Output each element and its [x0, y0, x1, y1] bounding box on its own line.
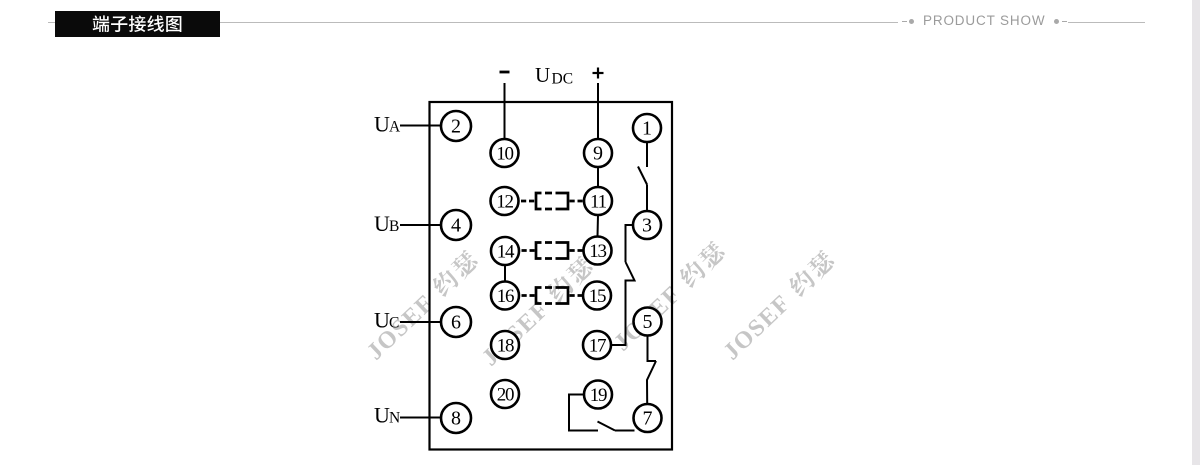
wire terminal 14 to terminal 16 [504, 265, 506, 282]
svg-text:U: U [374, 308, 390, 333]
wire UB to terminal 4 [400, 224, 441, 226]
svg-text:1: 1 [642, 118, 652, 140]
wire terminal 11 to terminal 13 [597, 215, 600, 237]
wire UN to terminal 8 [400, 417, 441, 419]
wire terminal 9 to terminal 11 [597, 167, 599, 187]
terminal 19 [584, 381, 612, 409]
label UN [374, 403, 400, 428]
terminal 11 [584, 187, 612, 215]
label minus [500, 71, 510, 74]
title 端子接线图 glyphs [93, 15, 110, 32]
label plus [593, 68, 604, 79]
header rule right segment [1068, 22, 1145, 23]
svg-text:U: U [374, 112, 390, 137]
header rule left nub [48, 22, 55, 23]
terminal 16 [491, 282, 519, 310]
svg-text:U: U [535, 63, 550, 87]
svg-text:DC: DC [552, 71, 574, 88]
contact K1 terminals 1-3 [638, 142, 647, 211]
wire plus to terminal 9 [597, 83, 599, 139]
product show right dot [1054, 19, 1059, 24]
product show text [923, 14, 1045, 28]
terminal 18 [491, 331, 519, 359]
svg-text:19: 19 [590, 385, 607, 406]
terminal 3 [633, 211, 661, 239]
svg-text:10: 10 [496, 144, 513, 165]
contact K4 terminals 19-7 [569, 395, 635, 431]
terminal 8 [441, 403, 471, 433]
label UB [374, 211, 399, 236]
svg-text:JOSEF: JOSEF [719, 290, 797, 365]
watermark JOSEF 3 [609, 239, 730, 356]
contact K3 terminals 5-7 [647, 336, 656, 405]
wire UC to terminal 6 [400, 321, 441, 323]
svg-text:2: 2 [451, 116, 461, 138]
terminal 15 [583, 282, 611, 310]
svg-text:6: 6 [451, 312, 461, 334]
terminal 13 [584, 237, 612, 265]
svg-text:16: 16 [497, 286, 514, 307]
terminal 4 [441, 210, 471, 240]
svg-text:12: 12 [496, 192, 513, 213]
svg-text:3: 3 [642, 215, 652, 237]
relay outline box [430, 102, 673, 450]
terminal 12 [491, 187, 519, 215]
svg-text:8: 8 [451, 408, 461, 430]
right edge gray strip [1192, 0, 1200, 465]
svg-text:N: N [389, 410, 400, 427]
svg-text:C: C [389, 315, 399, 332]
terminal 5 [634, 308, 662, 336]
svg-text:9: 9 [593, 143, 603, 165]
label UC [374, 308, 399, 333]
svg-text:7: 7 [643, 408, 653, 430]
svg-text:14: 14 [497, 242, 515, 263]
label UDC [535, 63, 573, 88]
resistor R1 terminals 12-11 (dashed) [521, 193, 583, 209]
terminal 1 [633, 114, 661, 142]
terminal 20 [491, 380, 519, 408]
product show left dot [909, 19, 914, 24]
contact K2 terminals 3-17 [611, 225, 635, 345]
svg-text:17: 17 [589, 336, 606, 357]
terminal 2 [441, 111, 471, 141]
product show left dash [902, 21, 907, 22]
terminal 9 [584, 139, 612, 167]
resistor R3 terminals 16-15 (dashed) [522, 288, 583, 304]
label UA [374, 112, 401, 137]
watermark JOSEF 4 [718, 248, 839, 365]
svg-text:U: U [374, 211, 390, 236]
terminal 14 [491, 237, 519, 265]
header rule line [220, 22, 898, 23]
svg-text:13: 13 [589, 241, 606, 262]
svg-text:15: 15 [589, 286, 606, 307]
svg-text:18: 18 [497, 336, 514, 357]
wire UA to terminal 2 [400, 125, 441, 127]
svg-text:4: 4 [451, 215, 461, 237]
resistor R2 terminals 14-13 (dashed) [522, 243, 583, 259]
watermark JOSEF 2 [477, 254, 598, 371]
svg-text:U: U [374, 403, 390, 428]
svg-text:20: 20 [497, 385, 514, 406]
terminal 17 [583, 331, 611, 359]
watermark JOSEF 1 [362, 248, 483, 365]
terminal 10 [491, 139, 519, 167]
svg-text:JOSEF: JOSEF [477, 296, 555, 371]
product show right dash [1062, 21, 1067, 22]
svg-text:11: 11 [590, 192, 607, 213]
terminal 6 [441, 307, 471, 337]
svg-text:A: A [389, 119, 401, 136]
header black title box [55, 11, 220, 37]
terminal 7 [634, 404, 662, 432]
svg-text:B: B [389, 218, 399, 235]
wire minus to terminal 10 [504, 83, 506, 139]
svg-text:5: 5 [643, 311, 653, 333]
